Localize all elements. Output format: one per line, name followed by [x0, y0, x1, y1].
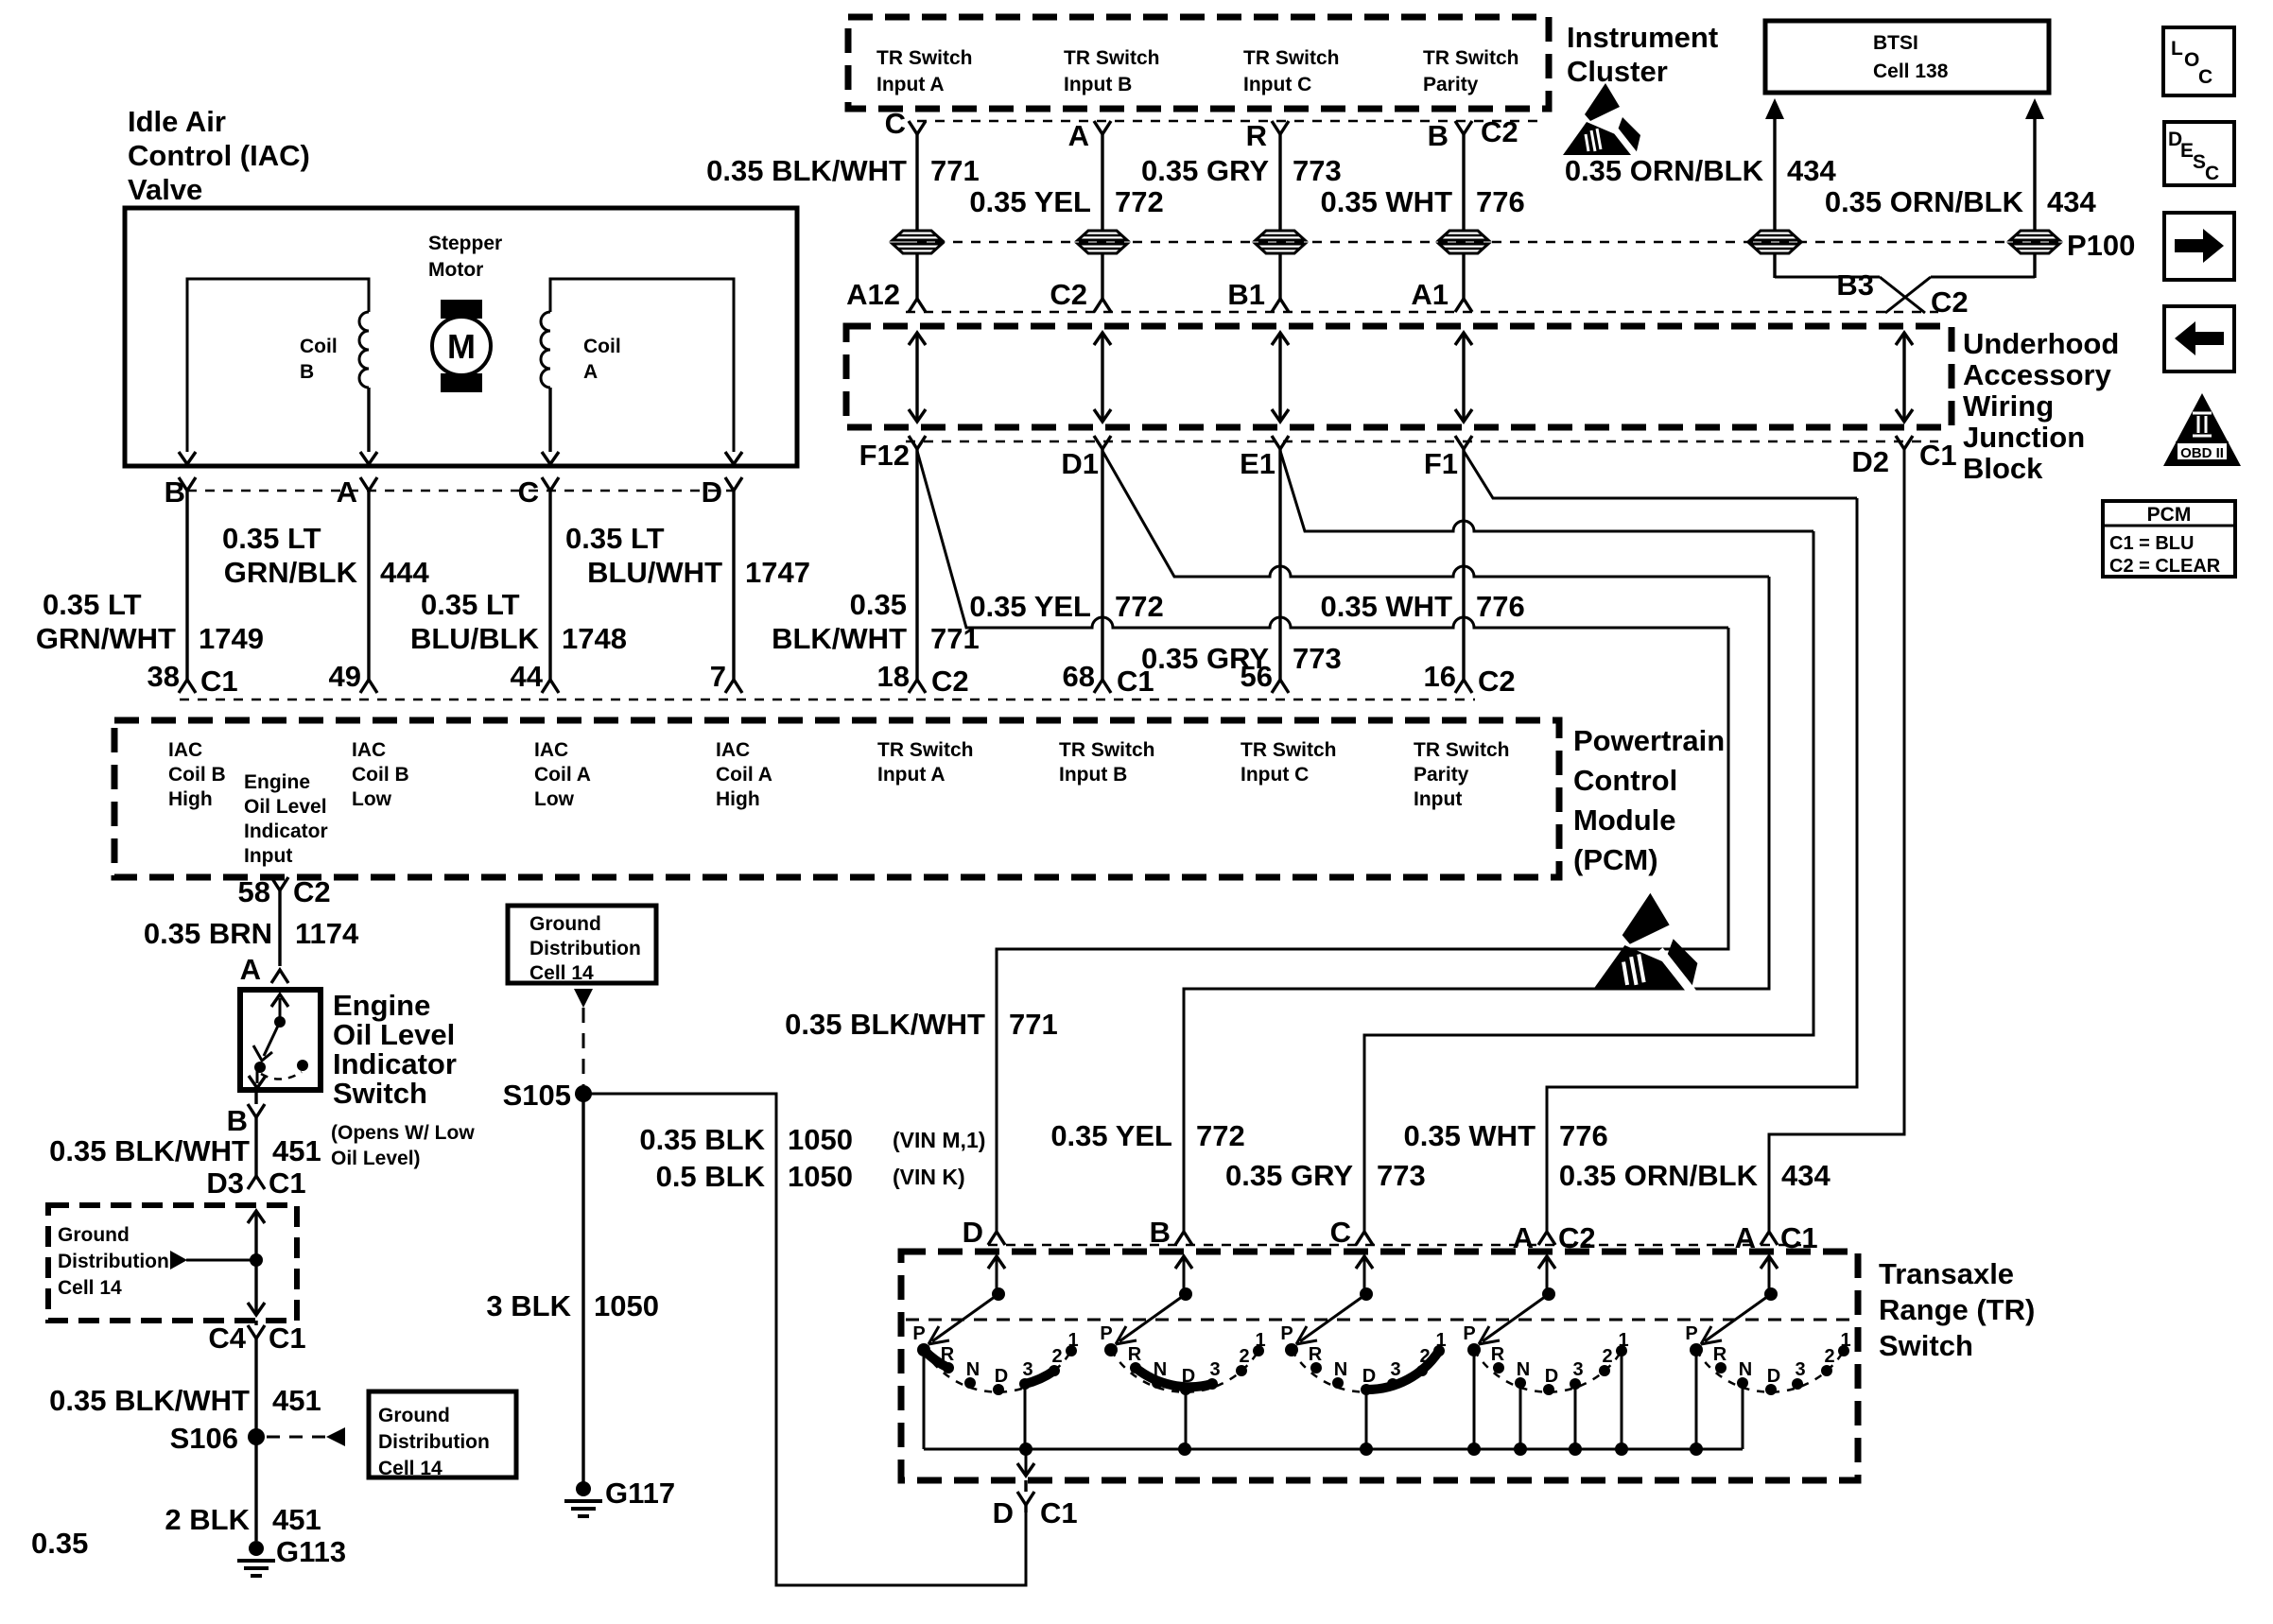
svg-text:Indicator: Indicator	[333, 1047, 457, 1080]
IAC pin C	[518, 475, 559, 666]
svg-text:G113: G113	[276, 1535, 346, 1568]
svg-text:B: B	[1428, 119, 1449, 152]
svg-text:Oil Level): Oil Level)	[331, 1148, 421, 1169]
svg-text:N: N	[1739, 1359, 1752, 1380]
svg-text:Stepper: Stepper	[428, 233, 502, 254]
wire BTSI right below P100	[1931, 253, 2035, 278]
svg-text:Input B: Input B	[1059, 764, 1127, 786]
splice S106	[170, 1422, 265, 1455]
ground G117	[564, 1477, 675, 1516]
coil A loop wiring	[550, 279, 734, 452]
svg-text:0.35 ORN/BLK: 0.35 ORN/BLK	[1559, 1159, 1759, 1192]
svg-text:Coil B: Coil B	[352, 764, 409, 786]
svg-text:C1: C1	[1040, 1496, 1078, 1529]
svg-text:OBD II: OBD II	[2180, 445, 2224, 461]
PCM pin 49	[329, 660, 377, 693]
wire 773 grommet to B1	[1278, 253, 1281, 299]
svg-text:Underhood: Underhood	[1963, 327, 2119, 360]
label TR Switch Input A (cluster)	[876, 47, 973, 95]
wire label 0.35 BLK/WHT 771 (top)	[706, 154, 980, 187]
svg-text:Valve: Valve	[128, 173, 202, 206]
svg-text:Transaxle: Transaxle	[1879, 1257, 2014, 1290]
legend LOC box	[2163, 27, 2234, 95]
pin B1 (junction top)	[1227, 278, 1289, 312]
svg-text:F1: F1	[1424, 447, 1458, 480]
IAC pin A	[337, 475, 377, 666]
BTSI box	[1765, 21, 2049, 93]
grommet P100 wire 773	[1256, 231, 1305, 253]
ground distribution arrow down (S105)	[574, 989, 593, 1008]
IAC pin D	[702, 475, 742, 666]
Stepper Motor label	[428, 233, 502, 281]
svg-text:P: P	[1685, 1323, 1697, 1344]
svg-text:1050: 1050	[594, 1289, 659, 1322]
svg-text:444: 444	[380, 556, 429, 589]
svg-text:Idle Air: Idle Air	[128, 105, 226, 138]
svg-text:434: 434	[2047, 185, 2096, 218]
svg-text:2: 2	[1239, 1346, 1249, 1367]
wire S105 to G117	[581, 1094, 584, 1482]
svg-text:Input A: Input A	[877, 764, 946, 786]
svg-text:Parity: Parity	[1423, 74, 1479, 95]
svg-text:P: P	[912, 1323, 925, 1344]
svg-text:D2: D2	[1851, 445, 1889, 478]
pin D3 C1	[206, 1166, 305, 1200]
pin F1	[1424, 436, 1472, 480]
PCM connector legend box	[2103, 501, 2235, 577]
svg-text:TR Switch: TR Switch	[1241, 739, 1337, 761]
svg-text:D: D	[1767, 1366, 1780, 1387]
wire label 0.35 BLK/WHT 451 (upper)	[49, 1134, 321, 1167]
wire label 0.35 ORN/BLK 434 (BTSI right)	[1825, 185, 2097, 218]
svg-text:M: M	[447, 327, 476, 366]
svg-text:Engine: Engine	[244, 771, 310, 793]
PCM label IAC Coil B Low	[352, 739, 409, 810]
pin D2 C1 (junction bottom)	[1851, 436, 1956, 478]
junction block pass-through arrow 771	[909, 333, 926, 422]
coil A arrows to box bottom	[542, 452, 742, 464]
svg-text:(Opens W/ Low: (Opens W/ Low	[331, 1122, 475, 1144]
svg-text:F12: F12	[859, 439, 910, 472]
svg-text:18: 18	[877, 660, 910, 693]
svg-text:16: 16	[1424, 660, 1456, 693]
PCM label TR Switch Input B	[1059, 739, 1155, 786]
svg-text:1749: 1749	[199, 622, 264, 655]
svg-text:N: N	[966, 1359, 980, 1380]
wire label 0.35 ORN/BLK 434 (BTSI left)	[1565, 154, 1837, 187]
wire 434 junction riser and drop to TR pin A C1	[1769, 449, 1904, 1232]
svg-text:R: R	[1309, 1344, 1323, 1365]
TR contact set 5 (pin A C1)	[1685, 1256, 1850, 1449]
PCM label Engine Oil Level Indicator Input	[244, 771, 328, 867]
svg-text:D: D	[995, 1366, 1008, 1387]
ground distribution reference arrow	[170, 1251, 187, 1270]
svg-text:Distribution: Distribution	[378, 1431, 490, 1453]
pin F12	[859, 436, 926, 472]
svg-text:P100: P100	[2067, 229, 2135, 262]
cluster connector dashed line C2	[917, 120, 1543, 123]
svg-text:TR Switch: TR Switch	[1059, 739, 1155, 761]
wire 773 E1 to PCM pin 56	[1278, 449, 1281, 666]
legend right arrow box	[2164, 213, 2234, 280]
svg-text:A: A	[1735, 1221, 1756, 1254]
wire 776 F1 to PCM pin 16	[1462, 449, 1465, 666]
wire label 0.35 LT BLU/BLK 1748	[410, 588, 627, 655]
svg-text:2 BLK: 2 BLK	[165, 1503, 250, 1536]
svg-text:A: A	[337, 475, 357, 509]
svg-text:771: 771	[1009, 1008, 1058, 1041]
svg-text:S106: S106	[170, 1422, 238, 1455]
svg-text:IAC: IAC	[716, 739, 750, 761]
PCM pin 18 C2	[877, 660, 969, 698]
svg-text:C2 = CLEAR: C2 = CLEAR	[2109, 556, 2221, 577]
svg-text:776: 776	[1476, 185, 1525, 218]
svg-text:A: A	[1068, 119, 1089, 152]
svg-text:Input: Input	[244, 845, 292, 867]
svg-text:C: C	[518, 475, 539, 509]
TR pin D	[963, 1216, 1005, 1249]
wire 776 grommet to A1	[1462, 253, 1465, 299]
svg-text:Instrument: Instrument	[1567, 21, 1718, 54]
svg-text:451: 451	[272, 1503, 321, 1536]
TR bottom pin D C1	[993, 1480, 1078, 1529]
pin D1	[1061, 436, 1111, 480]
P100 label	[2067, 229, 2135, 262]
grommet P100 wire 771	[893, 231, 942, 253]
svg-text:Control (IAC): Control (IAC)	[128, 139, 310, 172]
svg-text:Oil Level: Oil Level	[333, 1018, 455, 1051]
wire 772 riser and drop to TR pin B	[1184, 577, 1769, 1232]
stepper motor M	[432, 300, 491, 392]
coil B arrows to box bottom	[179, 452, 377, 464]
svg-text:0.35 WHT: 0.35 WHT	[1320, 590, 1452, 623]
svg-text:A1: A1	[1411, 278, 1449, 311]
svg-text:R: R	[1128, 1344, 1142, 1365]
svg-text:Parity: Parity	[1414, 764, 1469, 786]
wire label 0.35 YEL 772 (lower)	[1050, 1119, 1244, 1152]
svg-text:1748: 1748	[562, 622, 627, 655]
svg-text:TR Switch: TR Switch	[1423, 47, 1519, 69]
pin A (oil switch)	[240, 953, 288, 986]
svg-text:Switch: Switch	[1879, 1329, 1973, 1362]
svg-text:Ground: Ground	[58, 1224, 130, 1246]
pin A (cluster)	[1068, 119, 1111, 231]
svg-text:Input B: Input B	[1064, 74, 1132, 95]
ground distribution reference box (S105)	[508, 906, 656, 984]
svg-text:D: D	[1545, 1366, 1558, 1387]
wire 772 grommet to C2	[1101, 253, 1103, 299]
svg-text:C2: C2	[1558, 1221, 1596, 1254]
Idle Air Control (IAC) Valve title	[128, 105, 310, 206]
svg-text:3: 3	[1390, 1359, 1400, 1380]
wire label 0.35 LT GRN/WHT 1749	[36, 588, 264, 655]
pin A12	[846, 278, 926, 312]
svg-text:C1: C1	[1117, 665, 1154, 698]
svg-text:C: C	[2205, 163, 2219, 184]
Engine Oil Level Indicator Switch title	[331, 989, 475, 1169]
svg-text:High: High	[716, 788, 760, 810]
svg-text:1: 1	[1067, 1330, 1078, 1351]
svg-text:0.35 BLK/WHT: 0.35 BLK/WHT	[706, 154, 907, 187]
label C2 (B3 crossing)	[1931, 285, 1969, 319]
junction block pass-through arrow 772	[1094, 333, 1111, 422]
PCM pin 38 C1	[147, 660, 238, 698]
svg-text:Engine: Engine	[333, 989, 430, 1022]
svg-text:C: C	[885, 107, 906, 140]
svg-text:3: 3	[1022, 1359, 1032, 1380]
svg-text:1: 1	[1840, 1330, 1850, 1351]
svg-text:B: B	[300, 361, 314, 383]
svg-text:A12: A12	[846, 278, 900, 311]
svg-text:(VIN M,1): (VIN M,1)	[893, 1128, 985, 1152]
svg-text:0.35 LT: 0.35 LT	[43, 588, 142, 621]
svg-text:0.5 BLK: 0.5 BLK	[656, 1160, 766, 1193]
wire label 0.35 GRY 773 (top)	[1141, 154, 1342, 187]
svg-text:TR Switch: TR Switch	[876, 47, 973, 69]
svg-text:773: 773	[1293, 154, 1342, 187]
svg-text:C2: C2	[1481, 115, 1518, 148]
svg-text:Accessory: Accessory	[1963, 358, 2112, 391]
TR contact set 4 (pin A C2)	[1463, 1256, 1628, 1449]
splice S105	[503, 1079, 592, 1112]
ESD symbol (PCM)	[1593, 893, 1698, 993]
legend left arrow box	[2164, 306, 2234, 371]
svg-text:2: 2	[1824, 1346, 1834, 1367]
label B3	[1836, 268, 1874, 302]
svg-text:Input A: Input A	[876, 74, 945, 95]
TR pin B	[1150, 1216, 1192, 1249]
svg-text:7: 7	[710, 660, 726, 693]
TR common bus	[924, 1443, 1743, 1456]
svg-text:Low: Low	[352, 788, 392, 810]
svg-text:Block: Block	[1963, 452, 2043, 485]
svg-text:PCM: PCM	[2147, 504, 2192, 526]
pin C (cluster)	[885, 107, 926, 231]
svg-text:R: R	[1491, 1344, 1505, 1365]
PCM pin 56	[1241, 660, 1289, 693]
wire 772 bus (D1 slant + horizontal)	[1102, 451, 1769, 577]
instrument cluster dashed box	[848, 17, 1549, 109]
svg-text:Coil A: Coil A	[534, 764, 591, 786]
PCM label IAC Coil A Low	[534, 739, 591, 810]
svg-text:773: 773	[1293, 642, 1342, 675]
IAC connector dashed line	[187, 490, 734, 492]
PCM label IAC Coil A High	[716, 739, 772, 810]
svg-text:Distribution: Distribution	[58, 1251, 169, 1272]
wire label 0.35 WHT 776 (top)	[1320, 185, 1524, 218]
svg-text:Motor: Motor	[428, 259, 483, 281]
TR pin A C1	[1735, 1221, 1818, 1254]
svg-text:56: 56	[1241, 660, 1273, 693]
pin A1 (junction top)	[1411, 278, 1472, 312]
BTSI right wire with arrowhead	[2025, 98, 2044, 231]
stray label 0.35	[31, 1527, 88, 1560]
legend DESC box	[2164, 122, 2234, 185]
svg-text:D: D	[702, 475, 722, 509]
svg-text:Low: Low	[534, 788, 575, 810]
svg-text:776: 776	[1559, 1119, 1608, 1152]
PCM label TR Switch Parity Input	[1414, 739, 1510, 810]
label TR Switch Parity (cluster)	[1423, 47, 1519, 95]
svg-text:3: 3	[1572, 1359, 1583, 1380]
svg-text:451: 451	[272, 1384, 321, 1417]
grommet P100 wire 776	[1439, 231, 1488, 253]
svg-text:Range (TR): Range (TR)	[1879, 1293, 2035, 1326]
svg-text:0.35 GRY: 0.35 GRY	[1225, 1159, 1353, 1192]
svg-text:Control: Control	[1573, 764, 1677, 797]
svg-text:0.35 LT: 0.35 LT	[421, 588, 520, 621]
BTSI label	[1873, 32, 1949, 82]
svg-text:771: 771	[930, 154, 980, 187]
svg-text:C2: C2	[1050, 278, 1087, 311]
svg-text:3: 3	[1209, 1359, 1220, 1380]
svg-text:3: 3	[1795, 1359, 1805, 1380]
svg-text:0.35 WHT: 0.35 WHT	[1320, 185, 1452, 218]
svg-text:Coil B: Coil B	[168, 764, 226, 786]
wire label 0.35 GRY 773 (lower)	[1225, 1159, 1426, 1192]
svg-text:776: 776	[1476, 590, 1525, 623]
wire label 0.5 BLK 1050 (VIN K)	[656, 1160, 965, 1193]
svg-text:Input C: Input C	[1243, 74, 1311, 95]
ESD symbol (instrument cluster)	[1563, 83, 1640, 157]
svg-text:771: 771	[930, 622, 980, 655]
wire 776 bus (F1 slant + horizontal)	[1464, 451, 1857, 498]
svg-text:C1: C1	[1919, 439, 1957, 472]
svg-text:C: C	[2198, 66, 2212, 88]
pin B (cluster)	[1428, 119, 1472, 231]
svg-text:1050: 1050	[788, 1160, 853, 1193]
svg-text:0.35 LT: 0.35 LT	[222, 522, 321, 555]
svg-text:BLU/WHT: BLU/WHT	[587, 556, 722, 589]
oil switch internals	[249, 994, 308, 1088]
junction block bottom connector dashed line	[906, 441, 1938, 443]
svg-text:0.35 YEL: 0.35 YEL	[969, 590, 1091, 623]
TR top connector dashed line	[988, 1244, 1801, 1247]
PCM pin 16 C2	[1424, 660, 1516, 698]
svg-text:D1: D1	[1061, 447, 1099, 480]
svg-text:3 BLK: 3 BLK	[486, 1289, 571, 1322]
wire label 0.35 YEL 772 (mid)	[969, 590, 1163, 623]
TR pin C	[1330, 1216, 1373, 1249]
TR contact set 3 (pin C)	[1280, 1256, 1446, 1449]
svg-text:Coil: Coil	[583, 336, 621, 357]
dashed wire to S105	[582, 1008, 585, 1085]
wire S105 branch to TR switch output	[583, 1094, 1026, 1585]
wire 776 riser and drop to TR pin A C2	[1547, 498, 1857, 1232]
svg-text:772: 772	[1115, 590, 1164, 623]
svg-text:2: 2	[1602, 1346, 1612, 1367]
svg-text:1747: 1747	[745, 556, 810, 589]
PCM connector dashed line	[180, 699, 1475, 701]
svg-text:Input C: Input C	[1241, 764, 1309, 786]
PCM pin 68 C1	[1063, 660, 1154, 698]
Coil B label	[300, 336, 338, 383]
coil A winding	[541, 312, 550, 388]
svg-text:D: D	[963, 1216, 983, 1249]
junction block pass-through arrow 434	[1896, 333, 1913, 422]
svg-text:N: N	[1334, 1359, 1347, 1380]
svg-text:1050: 1050	[788, 1123, 853, 1156]
coil B loop wiring	[187, 279, 369, 452]
svg-text:0.35 BLK/WHT: 0.35 BLK/WHT	[49, 1134, 250, 1167]
svg-text:C1 = BLU: C1 = BLU	[2109, 533, 2194, 554]
svg-text:Cluster: Cluster	[1567, 55, 1668, 88]
svg-text:C1: C1	[269, 1166, 306, 1200]
pin R (cluster)	[1246, 119, 1289, 231]
svg-text:0.35 GRY: 0.35 GRY	[1141, 154, 1269, 187]
grommet P100 BTSI right	[2010, 231, 2059, 253]
wire 771 F12 to PCM pin 18	[915, 449, 918, 666]
svg-text:P: P	[1280, 1323, 1293, 1344]
svg-text:G117: G117	[605, 1477, 675, 1510]
svg-text:Switch: Switch	[333, 1077, 427, 1110]
svg-text:P: P	[1463, 1323, 1475, 1344]
svg-text:B1: B1	[1227, 278, 1265, 311]
svg-text:GRN/BLK: GRN/BLK	[224, 556, 358, 589]
IAC valve box	[125, 208, 797, 466]
svg-text:Input: Input	[1414, 788, 1462, 810]
PCM label TR Switch Input A	[877, 739, 974, 786]
PCM pin 44	[511, 660, 559, 693]
svg-text:Cell 14: Cell 14	[58, 1277, 122, 1299]
svg-text:R: R	[1246, 119, 1267, 152]
svg-text:44: 44	[511, 660, 544, 693]
svg-text:451: 451	[272, 1134, 321, 1167]
svg-text:1: 1	[1618, 1330, 1628, 1351]
svg-text:BLU/BLK: BLU/BLK	[410, 622, 540, 655]
svg-text:Coil A: Coil A	[716, 764, 772, 786]
svg-text:772: 772	[1115, 185, 1164, 218]
svg-text:C1: C1	[269, 1322, 306, 1355]
TR output wire with arrow	[1017, 1449, 1034, 1476]
svg-text:N: N	[1517, 1359, 1530, 1380]
wire 2 BLK 451 to G113	[254, 1437, 257, 1541]
IAC pin B	[165, 475, 196, 666]
svg-text:772: 772	[1196, 1119, 1245, 1152]
svg-text:C2: C2	[931, 665, 969, 698]
svg-text:38: 38	[147, 660, 180, 693]
svg-text:434: 434	[1787, 154, 1836, 187]
underhood junction block dashed box	[846, 326, 1952, 427]
svg-text:1: 1	[1255, 1330, 1265, 1351]
svg-text:Wiring: Wiring	[1963, 389, 2054, 423]
ground G113	[237, 1535, 346, 1576]
svg-text:0.35 YEL: 0.35 YEL	[1050, 1119, 1172, 1152]
svg-text:C2: C2	[293, 875, 331, 908]
label TR Switch Input B (cluster)	[1064, 47, 1160, 95]
wire BTSI left below P100	[1775, 253, 1880, 278]
svg-text:D: D	[993, 1496, 1014, 1529]
svg-text:E1: E1	[1240, 447, 1275, 480]
svg-text:C2: C2	[1478, 665, 1516, 698]
ground distribution reference box (S106)	[369, 1391, 516, 1479]
wire label 0.35 LT BLU/WHT 1747	[565, 522, 810, 589]
wire label 0.35 BLK/WHT 771 (mid)	[772, 588, 980, 655]
pin C4 C1	[208, 1321, 305, 1433]
svg-text:BLK/WHT: BLK/WHT	[772, 622, 907, 655]
svg-text:B3: B3	[1836, 268, 1874, 302]
wire 773 riser and drop to TR pin C	[1364, 531, 1813, 1232]
svg-text:0.35 BRN: 0.35 BRN	[144, 917, 272, 950]
svg-text:Cell 14: Cell 14	[529, 962, 594, 984]
svg-text:0.35 LT: 0.35 LT	[565, 522, 665, 555]
svg-text:IAC: IAC	[534, 739, 568, 761]
ground distribution reference label (left)	[58, 1224, 169, 1299]
Underhood Accessory Wiring Junction Block title	[1963, 327, 2119, 485]
svg-text:D: D	[1362, 1366, 1376, 1387]
wire label 0.35 WHT 776 (lower)	[1403, 1119, 1607, 1152]
svg-text:Cell 14: Cell 14	[378, 1458, 442, 1479]
